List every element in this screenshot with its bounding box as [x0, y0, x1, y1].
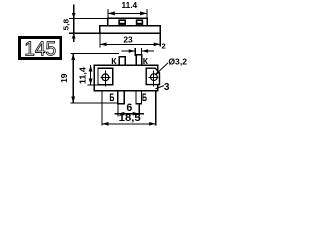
front view: left hole with center lines — [100, 71, 110, 87]
figure number box 145 — [20, 38, 61, 61]
dimension 6 (pin spacing) — [115, 102, 144, 116]
dimension 11.4 (front view, body top to ear bottom) — [78, 65, 98, 85]
svg-text:23: 23 — [123, 34, 133, 44]
svg-text:Б: Б — [109, 92, 114, 104]
svg-text:Б: Б — [142, 92, 147, 104]
dimension 18.5 (mounting width) — [102, 91, 156, 125]
svg-text:К: К — [143, 56, 149, 66]
svg-text:19: 19 — [59, 73, 69, 83]
front view: body outline — [94, 65, 157, 91]
front view: bottom right pin — [136, 91, 142, 104]
svg-text:5,8: 5,8 — [62, 19, 71, 31]
dimension label 2 (pin thickness) — [162, 42, 166, 51]
svg-text:11.4: 11.4 — [122, 1, 138, 10]
top view: cap block outline — [108, 18, 148, 26]
svg-text:Ø3,2: Ø3,2 — [168, 57, 187, 66]
leader and label 3 (flange thickness) — [155, 82, 170, 93]
pin label B left — [109, 92, 114, 104]
svg-text:18,5: 18,5 — [119, 113, 141, 124]
front view: bottom left pin — [118, 91, 125, 104]
dimension 5.8 (top view height) — [62, 5, 108, 43]
dimension 19 (total height) — [59, 53, 119, 103]
dimension 2 lines (right top pin width) — [122, 48, 155, 56]
front view: top right pin — [136, 55, 141, 65]
pin label K right — [143, 56, 149, 66]
pin label K left — [111, 56, 117, 66]
front view: left mounting ear — [98, 68, 113, 85]
front view: top left pin — [119, 57, 125, 65]
dimension 23 (flange width) — [100, 33, 160, 47]
top view: left pin slot — [118, 19, 126, 25]
top view: right pin slot — [136, 19, 143, 25]
svg-text:2: 2 — [162, 42, 166, 51]
pin label B right — [142, 92, 147, 104]
dimension 11.4 (top view cap width) — [108, 1, 147, 18]
svg-text:145: 145 — [24, 38, 56, 61]
leader and label diameter 3.2 — [155, 57, 188, 75]
svg-text:11,4: 11,4 — [78, 66, 87, 84]
top view: flange plate outline — [100, 26, 161, 33]
front view: right hole with center lines — [148, 71, 158, 87]
front view: right mounting ear with chamfer — [146, 68, 159, 84]
svg-text:К: К — [111, 56, 117, 66]
svg-text:3: 3 — [164, 82, 170, 93]
